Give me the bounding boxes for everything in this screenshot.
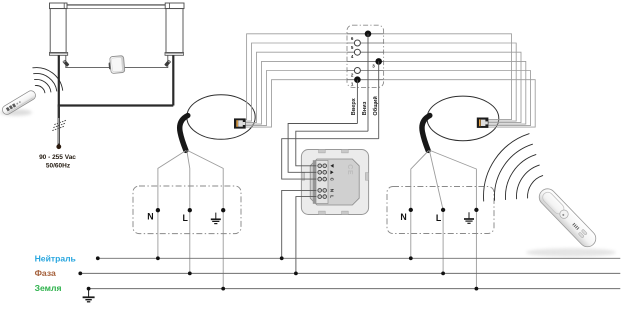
supply label [39,154,76,169]
svg-text:5: 5 [351,45,354,50]
switch module U1 [301,150,368,215]
terminal 5 open [354,40,360,46]
wire E2 to N [411,151,429,259]
module screws [318,164,327,199]
node U1-L bus [294,272,298,276]
supply drop wire [58,106,60,145]
ribbon wire R3 [384,61,526,124]
RF waves left [33,68,63,93]
remote R1 shadow [0,109,32,115]
cable marker [52,120,66,130]
svg-text:L: L [436,213,442,223]
ribbon wire R5 [384,43,517,121]
terminal 2 open [354,68,360,74]
terminal 6 node [365,31,372,38]
wire module N to bus [282,190,317,258]
svg-text:Нейтраль: Нейтраль [35,254,76,264]
power link wire [58,104,174,106]
connector J1 [234,118,246,128]
node B1-L [188,208,192,212]
terminal 4 open [354,49,360,55]
remote R2 shadow [526,248,616,256]
svg-text:L: L [330,195,335,198]
earth symbol B2 [464,212,474,223]
power cable M1 [58,55,60,105]
wire module L to bus [296,197,317,274]
wire E1 to earth [188,151,224,289]
remote R2 [536,185,599,250]
svg-text:90 - 255 Vac: 90 - 255 Vac [39,154,76,161]
svg-text:L: L [183,213,189,223]
module pin down [330,164,333,168]
earth symbol B1 [211,213,221,224]
bus Earth [89,288,621,290]
node B1-N bus [156,256,160,260]
terminal block TB1 [347,25,384,87]
row 6 [347,33,384,35]
node Earth start [87,287,91,291]
node Phase start [78,272,82,276]
node B1-E [221,208,225,212]
ground symbol [83,289,95,302]
svg-text:Вниз: Вниз [362,101,368,115]
terminal 1 node [354,76,361,83]
wire E1 to L [187,151,190,274]
ribbon wire L6 [246,34,347,120]
node B1-E bus [221,287,225,291]
motor M2 body [166,9,183,53]
wire Obshchiy to module [282,139,379,179]
wire E1 to N [158,151,186,259]
window top rail [67,5,166,9]
svg-text:50/60Hz: 50/60Hz [46,162,71,169]
svg-text:Фаза: Фаза [35,268,56,278]
svg-text:N: N [147,212,153,222]
socket box B2 [387,187,494,234]
svg-text:Земля: Земля [35,283,62,293]
svg-text:4: 4 [351,54,354,59]
motor M1 top bracket [50,3,68,9]
ribbon wire R2 [384,71,531,126]
pin numbers [351,36,375,87]
ribbon wire L1 [246,80,347,127]
motor M2 top bracket [165,3,184,9]
node B2-E bus [475,287,479,291]
wire E2 to L [429,151,443,274]
wire terminal3 down [378,61,380,138]
plug P1 [62,60,69,67]
row 3 [347,60,384,62]
node Neutral start [96,256,100,260]
svg-text:1: 1 [351,82,354,87]
node B2-L bus [441,272,445,276]
ellipse E1 cable [180,116,188,151]
wire E2 to earth [430,151,476,289]
node B2-N bus [409,256,413,260]
motor M2 bottom cap [165,53,184,56]
row 5 [347,42,384,44]
ribbon wire L5 [246,43,347,121]
ribbon wire R4 [384,52,521,122]
motor M1 bottom cap [49,53,67,56]
wire M2 to control unit [125,55,168,67]
remote R1 [1,89,37,116]
RF waves right [484,134,543,201]
supply node [56,144,61,149]
ribbon wire R6 [384,34,512,120]
ellipse E2 cable [422,116,430,151]
wire terminal1 down [356,80,358,124]
wire terminal6 down [367,34,369,131]
motor M1 body [50,9,66,53]
svg-text:2: 2 [351,73,354,78]
connector J2 [477,118,489,128]
wire Vverh to module [288,124,357,173]
ribbon wire R1 [384,80,536,127]
connector ellipse E1 [187,95,255,140]
row 1 [347,79,384,81]
bus Neutral [98,257,621,259]
ribbon wire L3 [246,61,347,124]
svg-text:Вверх: Вверх [351,97,357,115]
node B2-L [441,208,445,212]
socket box B1 [133,186,241,234]
ribbon wire L4 [246,52,347,122]
svg-text:3: 3 [372,63,375,68]
connector ellipse E2 [427,96,499,141]
power cable M2 [172,55,174,105]
control unit [108,56,125,74]
row 4 [347,51,384,53]
bus Phase [80,272,620,274]
svg-text:Общий: Общий [372,96,379,116]
node B1-N [156,208,160,212]
svg-text:6: 6 [351,36,354,41]
ribbon wire L2 [246,71,347,126]
module pin up [330,170,333,174]
terminal 3 node [375,58,382,65]
svg-text:CE: CE [346,164,353,175]
plug P2 [164,60,171,67]
node U1-N bus [280,256,284,260]
node B2-N [409,208,413,212]
wire M1 to control unit [66,55,110,67]
wire Vniz to module [296,131,368,166]
node B2-E [474,208,478,212]
svg-text:N: N [400,212,406,222]
row 2 [347,70,384,72]
node B1-L bus [188,272,192,276]
